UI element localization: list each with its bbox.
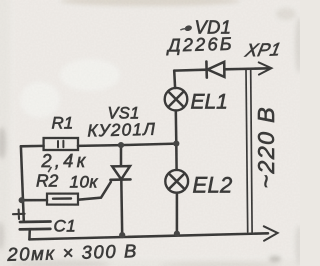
ink blob tail — [180, 29, 185, 30]
thyristor VS1 anode wire — [120, 145, 123, 166]
node: EL1/EL2 junction — [173, 141, 179, 147]
resistor R1 power marks — [58, 141, 63, 148]
thyristor VS1 cathode wire — [120, 180, 123, 236]
wire: EL1 drop from corner — [173, 71, 176, 88]
resistor R2 power mark — [53, 197, 71, 200]
wire: top wire left segment (corner to diode) — [174, 68, 206, 71]
wire: R2 left wire — [22, 199, 47, 202]
capacitor C1 top plate — [20, 220, 51, 223]
lamp EL2 — [165, 170, 188, 193]
thyristor VS1 triangle — [112, 166, 130, 179]
wire: EL1 to node — [175, 111, 178, 144]
wire: left rail — [21, 146, 24, 221]
socket double line — [246, 70, 252, 232]
node: R1/anode junction — [118, 142, 124, 148]
wire: R1 right wire — [78, 144, 121, 147]
wire: node to EL2 — [175, 144, 178, 170]
diode VD1 triangle — [208, 62, 225, 77]
wire: C1 to bottom wire — [28, 229, 31, 239]
ink blob near VD1 — [184, 24, 193, 31]
node: cathode/bottom junction — [119, 232, 125, 238]
wire: bottom wire — [29, 233, 268, 239]
plug XP1 top pin arrowhead — [259, 62, 272, 74]
stray accent mark over R2 — [48, 167, 51, 172]
wire: top wire right segment (diode to plug arrow) — [224, 68, 269, 69]
capacitor C1 polarity plus — [13, 210, 25, 220]
node: EL2/bottom junction — [174, 231, 180, 237]
thyristor VS1 cathode bar — [111, 178, 131, 181]
wire: R1 left wire — [21, 145, 44, 148]
thyristor VS1 gate wire — [79, 182, 111, 200]
diode VD1 cathode bar — [205, 62, 208, 78]
wire: node line to thyristor anode — [121, 144, 176, 146]
capacitor C1 bottom plate — [20, 228, 51, 231]
plug XP1 bottom pin arrowhead — [264, 226, 278, 240]
wire: EL2 to bottom wire — [176, 193, 179, 234]
node: R2/left rail junction — [19, 197, 25, 203]
lamp EL1 — [165, 88, 188, 111]
resistor R1 box — [44, 138, 78, 150]
resistor R2 box — [47, 194, 78, 205]
